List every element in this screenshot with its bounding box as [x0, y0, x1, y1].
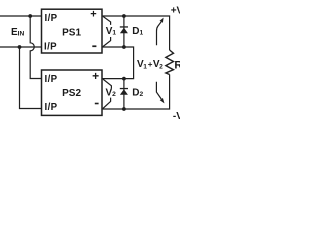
junction node bottom input [18, 45, 22, 49]
diode D1 symbol (cathode bar + triangle pointing up) [120, 26, 128, 33]
svg-text:I/P: I/P [45, 102, 58, 113]
label PS2 - terminal [95, 103, 99, 105]
svg-text:I/P: I/P [45, 74, 58, 85]
label V1 + V2 [137, 59, 163, 70]
diode D2 symbol (cathode bar + triangle pointing up) [120, 88, 128, 95]
wire top input EIN to PS1 upper I/P [0, 15, 41, 17]
wire D1 branch [123, 16, 125, 47]
wire vertical from top-input node to PS2 upper I/P (with hop over lower wire) [30, 16, 41, 79]
svg-text:I/P: I/P [44, 41, 57, 52]
wire bottom input EIN to PS1 lower I/P [0, 46, 41, 48]
wire PS1 - output to middle link [102, 47, 133, 79]
arrow annotation down to -V [156, 82, 161, 99]
svg-text:1: 1 [143, 63, 147, 70]
leader V2 upper (to + wire) [103, 79, 111, 88]
svg-text:I/P: I/P [45, 13, 58, 24]
junction node D2 top [122, 77, 126, 81]
leader V2 lower (to - wire) [103, 98, 111, 109]
svg-text:+: + [90, 9, 96, 21]
svg-text:+: + [92, 69, 99, 83]
leader V1 upper (to + wire) [103, 16, 111, 25]
junction node top input [28, 14, 32, 18]
wire PS2 - output bottom rail [102, 75, 169, 110]
svg-text:R: R [174, 59, 180, 71]
wire PS1 + output to +V rail [102, 16, 169, 50]
arrow annotation up to +V [157, 22, 162, 46]
wire D2 branch [123, 79, 125, 109]
leader V1 lower (to - wire) [103, 37, 111, 47]
svg-text:-V: -V [173, 111, 180, 122]
junction node D1 top [122, 14, 126, 18]
svg-text:PS2: PS2 [62, 88, 81, 99]
power supply PS2 box [42, 70, 103, 115]
junction node D2 bottom [122, 107, 126, 111]
power supply PS1 box [42, 9, 103, 53]
label PS1 - terminal [92, 45, 96, 47]
wire vertical from bottom-input node to PS2 lower I/P [20, 47, 42, 109]
resistor R zigzag [166, 50, 174, 75]
svg-text:2: 2 [159, 63, 163, 70]
svg-text:PS1: PS1 [62, 28, 81, 39]
svg-text:+V: +V [171, 6, 180, 17]
junction node D1 bottom [122, 45, 126, 49]
